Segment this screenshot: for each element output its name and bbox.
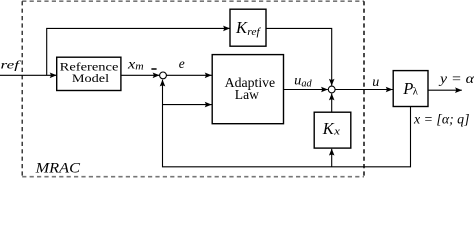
wire u_ad xyxy=(284,89,328,91)
svg-text:ref: ref xyxy=(247,27,261,38)
minus sign xyxy=(151,68,156,70)
svg-text:x: x xyxy=(333,127,341,138)
wire x to Adaptive Law input 2 xyxy=(163,104,212,106)
block K_x xyxy=(314,112,351,148)
wire K_ref to S2 xyxy=(266,28,332,85)
svg-text:uad: uad xyxy=(294,73,313,89)
svg-text:λ: λ xyxy=(413,86,419,98)
wire state feedback xyxy=(163,80,411,167)
svg-text:e: e xyxy=(179,56,185,71)
wire ref input xyxy=(0,74,57,76)
block K_ref xyxy=(230,9,266,46)
svg-text:ref: ref xyxy=(1,58,22,72)
svg-text:y = α: y = α xyxy=(438,72,474,87)
wire K_x to S2 xyxy=(331,94,333,113)
wire ref branch to K_ref xyxy=(47,28,230,75)
block Adaptive Law xyxy=(212,55,283,124)
svg-text:u: u xyxy=(372,75,379,90)
wire e xyxy=(166,74,211,76)
block Reference Model xyxy=(57,57,121,90)
summing junction S1 xyxy=(160,72,167,79)
summing junction S2 xyxy=(328,86,335,93)
svg-text:x = [α; q]: x = [α; q] xyxy=(413,111,470,126)
wire y output xyxy=(428,89,462,91)
svg-text:Reference: Reference xyxy=(60,62,119,74)
svg-text:MRAC: MRAC xyxy=(34,161,80,177)
svg-text:Model: Model xyxy=(72,73,109,85)
wire x_m xyxy=(121,74,159,76)
block P_lambda xyxy=(393,71,428,107)
svg-text:K: K xyxy=(322,119,335,138)
MRAC dashed boundary xyxy=(22,1,364,177)
svg-text:xm: xm xyxy=(127,57,144,72)
svg-text:K: K xyxy=(235,18,248,37)
wire u xyxy=(335,89,392,91)
svg-text:Law: Law xyxy=(235,87,259,102)
wire feedback to K_x xyxy=(331,149,333,167)
